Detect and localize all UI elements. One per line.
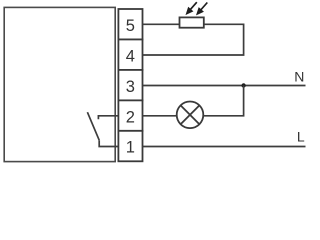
wire terminal 5 to photoresistor — [143, 23, 180, 25]
photoresistor R (light sensor) — [180, 17, 204, 27]
svg-text:5: 5 — [126, 17, 135, 35]
light arrow 2 — [197, 3, 207, 14]
svg-text:L: L — [297, 128, 305, 144]
light arrow 1 — [187, 2, 197, 13]
device enclosure box — [4, 7, 115, 161]
terminal block — [118, 9, 142, 161]
svg-text:3: 3 — [126, 78, 135, 96]
lamp E1 — [177, 102, 204, 129]
wire terminal 2 to lamp — [143, 115, 177, 117]
internal relay switch contact — [87, 112, 118, 146]
switch blade — [87, 112, 99, 140]
wire switch bottom contact to terminal 1 — [99, 140, 118, 146]
wire terminal 2 to switch top contact — [98, 116, 118, 119]
wire terminal 1 to L — [143, 146, 306, 148]
wire lamp to junction on N — [203, 86, 243, 116]
svg-text:N: N — [294, 69, 304, 85]
svg-text:4: 4 — [126, 47, 135, 65]
svg-text:1: 1 — [126, 139, 135, 157]
node junction on N line — [241, 83, 245, 87]
svg-text:2: 2 — [126, 108, 135, 126]
wire photoresistor to right, down, back to terminal 4 — [143, 24, 244, 55]
wire terminal 3 to N — [143, 85, 306, 87]
